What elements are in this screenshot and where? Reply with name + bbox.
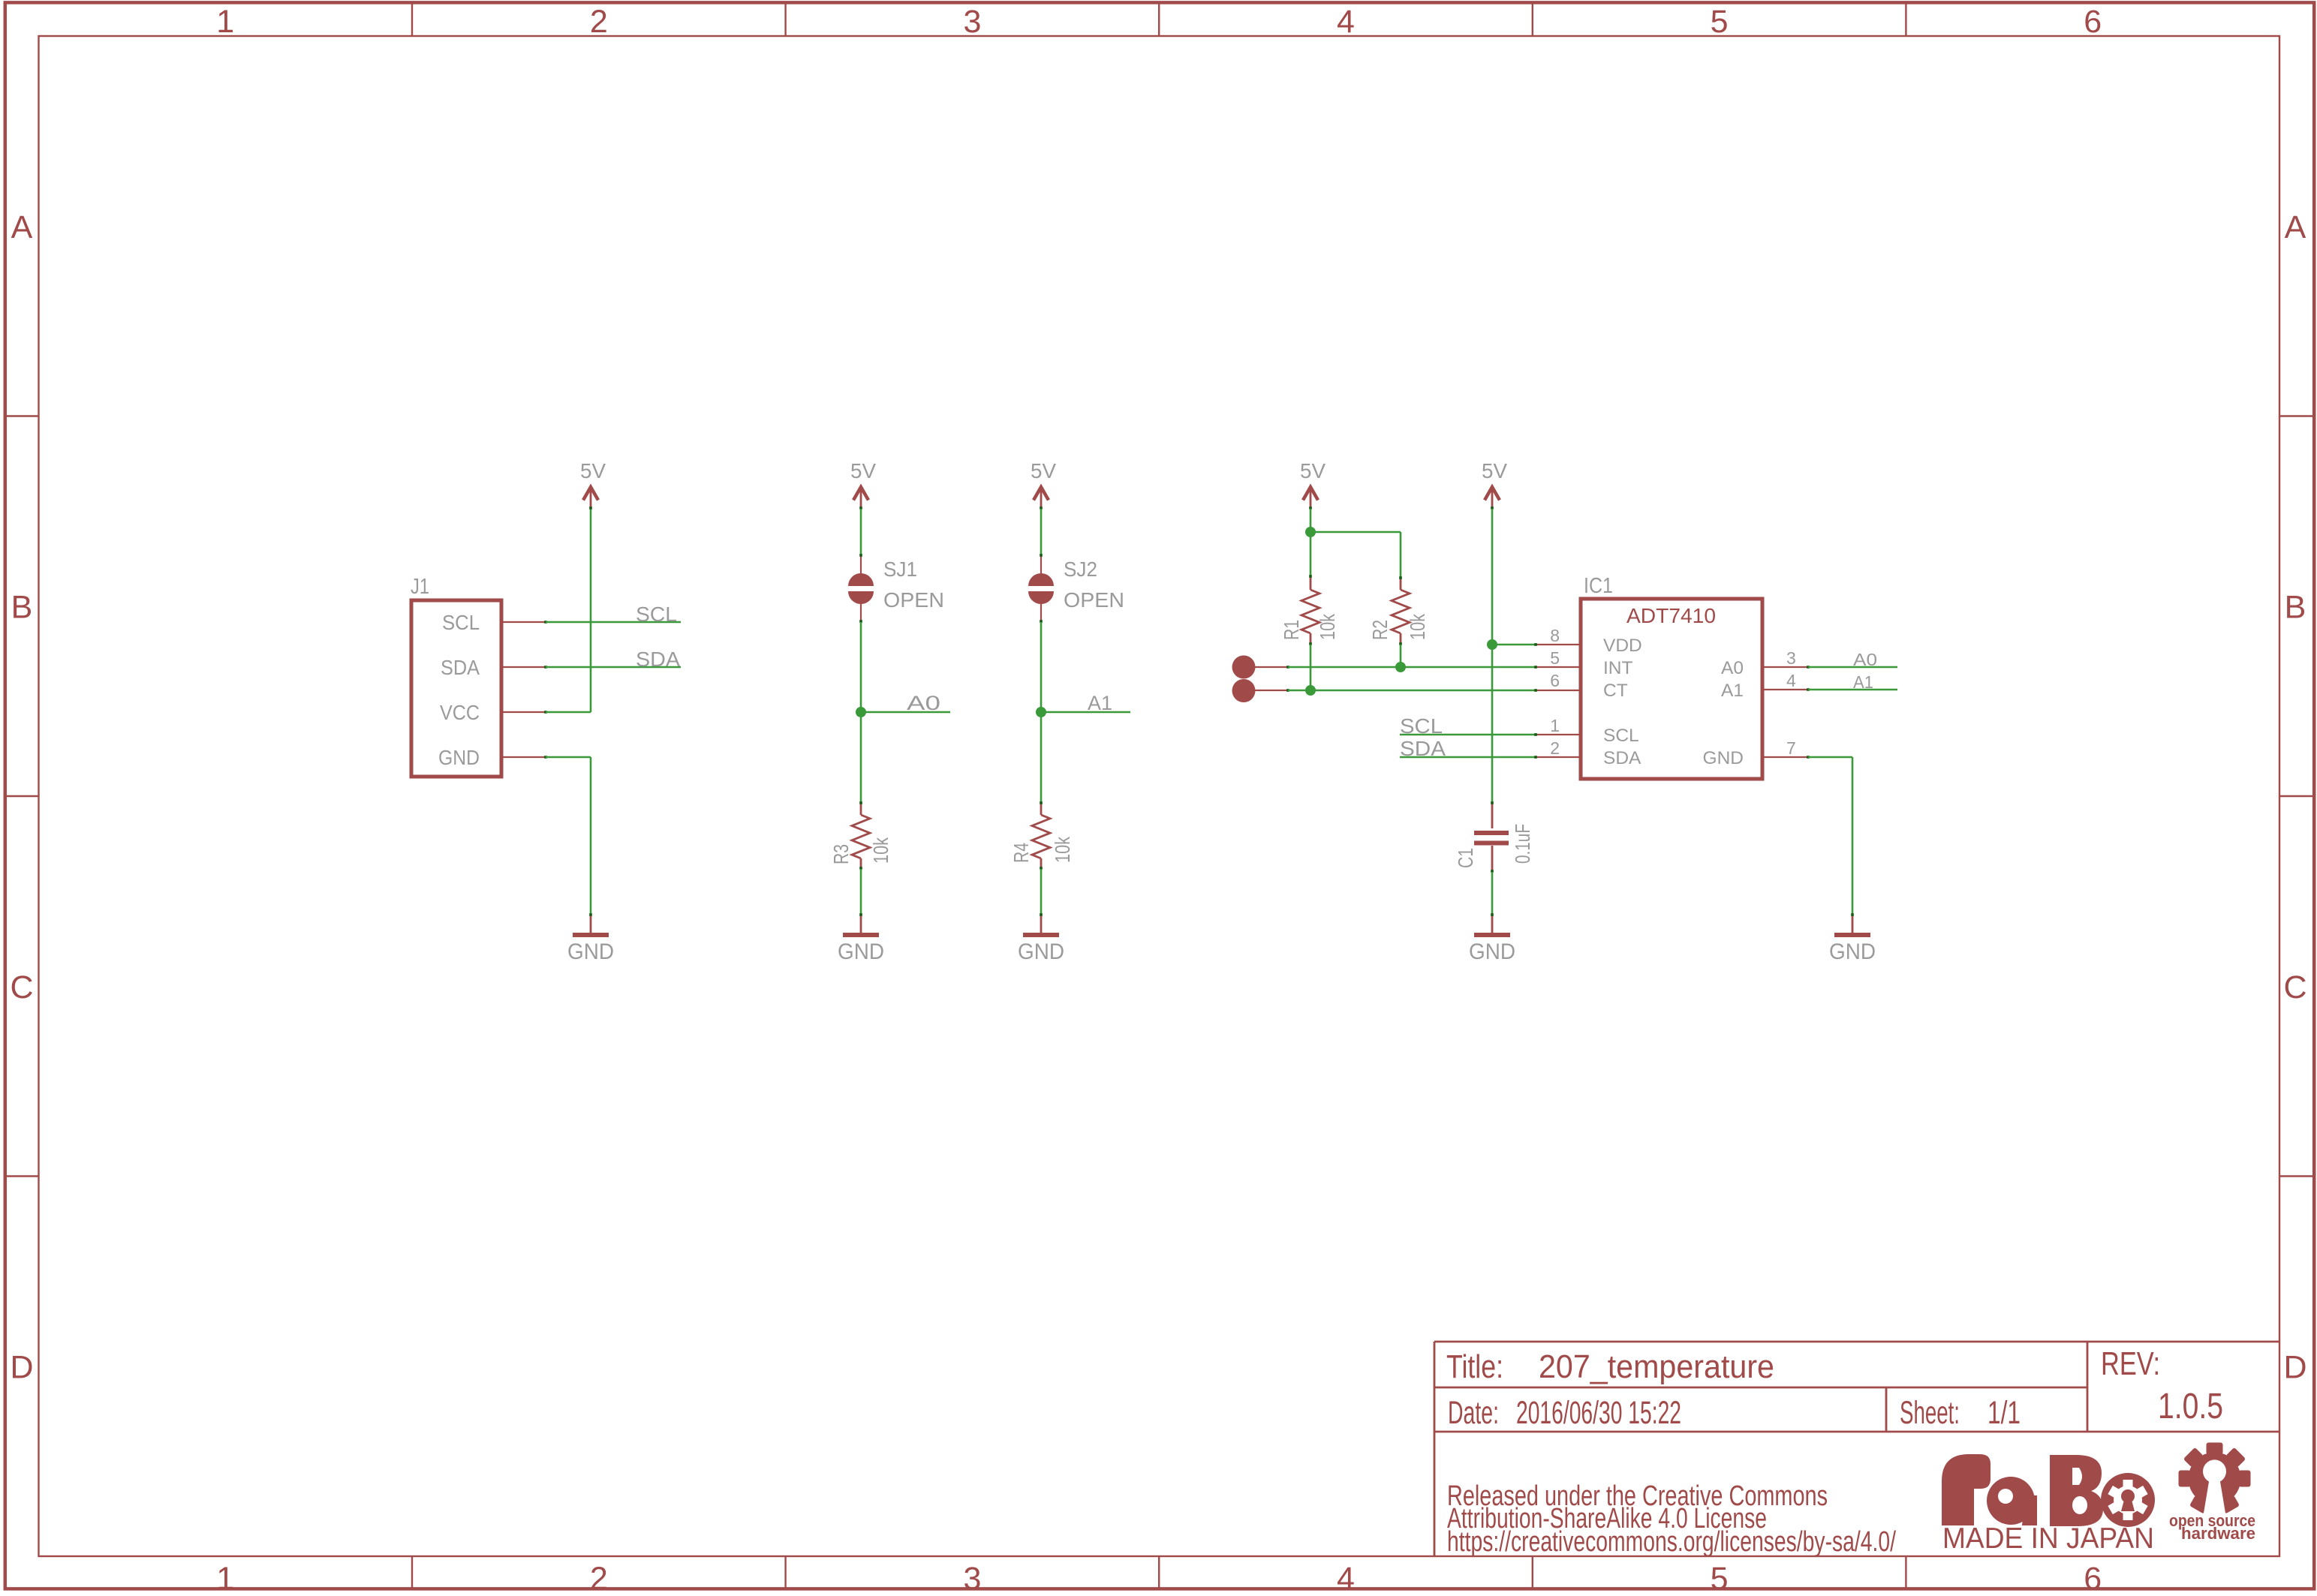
svg-text:4: 4 xyxy=(1786,671,1796,690)
svg-text:1/1: 1/1 xyxy=(1988,1395,2021,1431)
svg-text:6: 6 xyxy=(2084,4,2102,40)
svg-text:C: C xyxy=(2283,969,2306,1005)
svg-text:5: 5 xyxy=(1550,648,1560,668)
svg-text:SCL: SCL xyxy=(1400,714,1443,738)
svg-text:A1: A1 xyxy=(1853,672,1873,692)
svg-text:6: 6 xyxy=(1550,671,1560,690)
svg-text:7: 7 xyxy=(1786,738,1796,758)
svg-text:SCL: SCL xyxy=(442,611,480,634)
svg-text:5V: 5V xyxy=(850,459,876,482)
svg-text:GND: GND xyxy=(567,939,614,964)
svg-text:2016/06/30 15:22: 2016/06/30 15:22 xyxy=(1516,1395,1681,1431)
svg-text:5V: 5V xyxy=(1300,459,1326,482)
svg-text:ADT7410: ADT7410 xyxy=(1626,604,1716,627)
svg-text:A: A xyxy=(2285,209,2306,245)
svg-text:J1: J1 xyxy=(411,575,429,599)
svg-text:1: 1 xyxy=(216,4,234,40)
svg-text:10k: 10k xyxy=(1051,836,1074,863)
svg-text:B: B xyxy=(11,589,33,625)
svg-text:1: 1 xyxy=(216,1561,234,1596)
svg-text:GND: GND xyxy=(838,939,884,964)
svg-text:C: C xyxy=(10,969,33,1005)
svg-text:A0: A0 xyxy=(1853,650,1877,669)
svg-text:10k: 10k xyxy=(869,837,892,864)
svg-text:GND: GND xyxy=(1018,939,1064,964)
svg-text:1: 1 xyxy=(1550,716,1560,735)
svg-text:0.1uF: 0.1uF xyxy=(1511,824,1534,864)
svg-text:REV:: REV: xyxy=(2101,1345,2160,1382)
svg-text:8: 8 xyxy=(1550,626,1560,645)
svg-text:IC1: IC1 xyxy=(1584,574,1613,598)
svg-text:GND: GND xyxy=(1703,748,1744,768)
svg-text:SDA: SDA xyxy=(441,656,480,679)
svg-text:https://creativecommons.org/li: https://creativecommons.org/licenses/by-… xyxy=(1447,1526,1896,1558)
svg-text:6: 6 xyxy=(2084,1561,2102,1596)
svg-text:SDA: SDA xyxy=(1400,737,1446,760)
svg-text:R4: R4 xyxy=(1010,843,1033,863)
svg-text:CT: CT xyxy=(1603,681,1628,701)
svg-text:SCL: SCL xyxy=(1603,726,1639,746)
svg-text:SJ1: SJ1 xyxy=(883,558,917,581)
svg-text:2: 2 xyxy=(1550,738,1560,758)
svg-text:hardware: hardware xyxy=(2181,1524,2255,1543)
svg-text:C1: C1 xyxy=(1454,848,1477,868)
svg-text:2: 2 xyxy=(590,1561,608,1596)
svg-text:R1: R1 xyxy=(1280,620,1303,640)
svg-text:OPEN: OPEN xyxy=(1064,588,1124,612)
svg-text:A1: A1 xyxy=(1088,692,1112,714)
svg-text:4: 4 xyxy=(1337,4,1355,40)
svg-text:VCC: VCC xyxy=(440,701,480,724)
svg-text:D: D xyxy=(2283,1349,2306,1385)
svg-text:Date:: Date: xyxy=(1448,1395,1499,1431)
svg-text:10k: 10k xyxy=(1406,613,1429,640)
svg-text:R2: R2 xyxy=(1368,620,1392,640)
svg-text:10k: 10k xyxy=(1316,613,1339,640)
svg-text:SDA: SDA xyxy=(636,648,680,671)
svg-text:2: 2 xyxy=(590,4,608,40)
svg-text:GND: GND xyxy=(1829,939,1876,964)
svg-text:5: 5 xyxy=(1711,4,1729,40)
svg-text:5: 5 xyxy=(1711,1561,1729,1596)
svg-text:5V: 5V xyxy=(1482,459,1507,482)
svg-text:R3: R3 xyxy=(829,844,853,864)
svg-text:A: A xyxy=(11,209,33,245)
svg-text:A0: A0 xyxy=(907,692,940,714)
svg-text:3: 3 xyxy=(1786,648,1796,668)
svg-text:3: 3 xyxy=(963,1561,981,1596)
svg-text:OPEN: OPEN xyxy=(883,588,944,612)
svg-text:1.0.5: 1.0.5 xyxy=(2158,1387,2223,1426)
svg-text:INT: INT xyxy=(1603,658,1633,678)
svg-text:5V: 5V xyxy=(580,459,606,482)
svg-text:A0: A0 xyxy=(1721,658,1744,678)
svg-text:B: B xyxy=(2285,589,2306,625)
svg-text:Title:: Title: xyxy=(1446,1348,1503,1385)
svg-text:D: D xyxy=(10,1349,33,1385)
svg-text:VDD: VDD xyxy=(1603,636,1642,656)
svg-text:A1: A1 xyxy=(1721,681,1744,701)
svg-text:4: 4 xyxy=(1337,1561,1355,1596)
svg-text:GND: GND xyxy=(1469,939,1515,964)
svg-text:SJ2: SJ2 xyxy=(1064,558,1097,581)
svg-text:MADE IN JAPAN: MADE IN JAPAN xyxy=(1942,1522,2154,1555)
svg-text:207_temperature: 207_temperature xyxy=(1539,1348,1774,1385)
svg-text:GND: GND xyxy=(438,746,480,769)
svg-text:Sheet:: Sheet: xyxy=(1900,1395,1960,1431)
svg-text:SCL: SCL xyxy=(636,603,677,626)
svg-text:3: 3 xyxy=(963,4,981,40)
svg-text:5V: 5V xyxy=(1031,459,1056,482)
svg-text:SDA: SDA xyxy=(1603,748,1641,768)
